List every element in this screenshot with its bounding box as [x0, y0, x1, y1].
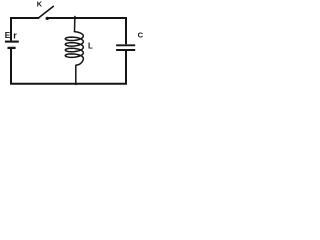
svg-text:L: L	[88, 42, 93, 51]
wire left-bottom segment	[11, 49, 126, 84]
switch K blade	[39, 6, 53, 17]
svg-text:r: r	[13, 30, 17, 40]
battery E,r long plate	[5, 41, 19, 43]
wire top-left segment	[11, 18, 39, 41]
svg-text:K: K	[37, 0, 43, 9]
battery E,r short plate	[8, 47, 16, 49]
switch K fixed contact dot	[46, 17, 49, 20]
svg-text:E: E	[5, 31, 11, 40]
capacitor C top plate	[116, 44, 135, 46]
inductor L coil	[65, 17, 83, 85]
svg-text:C: C	[138, 30, 144, 39]
wire top-right segment	[47, 18, 126, 44]
capacitor C bottom plate	[116, 49, 135, 51]
